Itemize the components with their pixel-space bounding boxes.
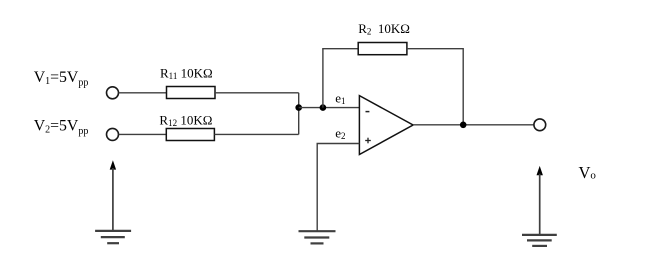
wire feedback down to output node xyxy=(462,48,464,125)
ground left xyxy=(95,231,131,243)
wire input1 to R11 xyxy=(119,92,167,94)
terminal input 2 xyxy=(107,128,119,140)
resistor R11 xyxy=(167,87,216,99)
left source arrow xyxy=(110,160,116,230)
terminal input 1 xyxy=(107,87,119,99)
wire node A to inverting input xyxy=(299,107,360,109)
wire R11 to node A xyxy=(215,92,299,94)
wire vertical joining R11 and R12 outputs xyxy=(298,93,300,135)
output junction dot xyxy=(460,122,467,129)
ground right xyxy=(522,235,557,246)
wire node B up to feedback xyxy=(322,49,324,108)
wire op-amp output xyxy=(413,124,534,126)
svg-text:R210KΩ: R210KΩ xyxy=(358,21,410,37)
wire e2 down to middle ground xyxy=(316,144,318,231)
resistor R12 xyxy=(166,129,214,141)
node A junction dot xyxy=(295,104,302,111)
wire R2 to output column xyxy=(407,48,463,50)
terminal output xyxy=(534,119,546,131)
op-amp plus sign xyxy=(365,140,371,142)
wire feedback left to R2 xyxy=(322,48,358,50)
wire R12 to node A xyxy=(214,133,298,135)
svg-text:R12 10KΩ: R12 10KΩ xyxy=(159,112,212,128)
node B junction dot (feedback tap) xyxy=(320,104,327,111)
op-amp minus sign xyxy=(366,111,370,113)
wire non-inverting input xyxy=(317,143,360,145)
ground middle xyxy=(299,231,336,243)
right source arrow xyxy=(537,166,543,235)
wire input2 to R12 xyxy=(119,133,167,135)
op-amp U1 xyxy=(359,96,413,155)
resistor R2 xyxy=(358,43,407,55)
svg-text:R11 10KΩ: R11 10KΩ xyxy=(160,65,213,81)
